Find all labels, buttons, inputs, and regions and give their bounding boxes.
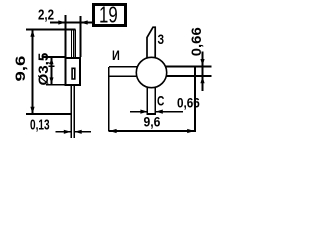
source lead (left) top edge [109, 66, 137, 68]
arrowhead left [75, 130, 82, 134]
crossbar tick [49, 65, 55, 67]
body lead (right) top edge [166, 66, 212, 68]
can bottom extension line left [46, 84, 66, 86]
dimension 0,66 bottom left shaft [130, 111, 147, 113]
svg-text:0,66: 0,66 [177, 96, 200, 111]
can circle top view [136, 57, 166, 87]
dimension line 9,6 vertical [32, 30, 34, 115]
arrowhead right [187, 129, 194, 133]
flange mid line c [74, 30, 76, 58]
case number box 19 [94, 5, 126, 26]
arrowhead up [30, 29, 34, 37]
extension line x=195 [194, 67, 196, 133]
body lead bottom edge [166, 75, 211, 77]
dimension 0,13 left shaft [56, 131, 71, 133]
source lead end + extension line down [108, 67, 110, 132]
flange mid line b [72, 30, 74, 58]
svg-text:С: С [157, 93, 165, 109]
lead wire left side [70, 86, 72, 139]
drain lead right edge [154, 87, 156, 115]
arrowhead left [109, 129, 116, 133]
dimension line 9,6 bottom [109, 130, 195, 132]
arrowhead down [30, 107, 34, 115]
dimension 0,66 bottom right shaft [156, 111, 183, 113]
drain lead end cap [147, 113, 157, 115]
arrowhead left [156, 110, 163, 114]
can top extension line left [43, 56, 66, 58]
svg-text:0,13: 0,13 [30, 115, 50, 133]
arrowhead right [140, 110, 147, 114]
flange mid line a [71, 30, 73, 58]
gate tab (up) [147, 27, 155, 58]
dimension 0,13 right shaft [75, 131, 91, 133]
svg-text:2,2: 2,2 [38, 6, 54, 23]
source lead bottom edge [109, 75, 137, 77]
arrowhead left toward x=80.5 [80, 20, 88, 24]
svg-text:З: З [158, 32, 165, 48]
drain lead (down) left edge [146, 87, 148, 115]
extension line left (x=65.5) [65, 15, 67, 57]
lead wire right side [73, 86, 75, 139]
arrowhead right toward x=65.5 [58, 20, 66, 24]
arrowhead up to lead bottom [200, 76, 204, 83]
dimension line 2,2 / leader to box 19 [50, 22, 92, 24]
arrowhead right [64, 130, 71, 134]
dimension line O3,5 vertical [51, 58, 53, 85]
svg-text:9,6: 9,6 [144, 114, 161, 130]
svg-text:Ø3,5: Ø3,5 [36, 53, 51, 86]
svg-text:0,66: 0,66 [189, 27, 204, 56]
top extension line [26, 29, 76, 31]
svg-text:И: И [112, 48, 120, 64]
can body side view [66, 58, 81, 85]
arrowhead down [50, 77, 54, 84]
dimension line x=202.5 for 0,66 [202, 52, 204, 92]
extension line right (x=80.5) [80, 16, 82, 57]
arrowhead down to lead top [200, 59, 204, 66]
crystal window [72, 68, 75, 79]
svg-text:19: 19 [99, 3, 118, 28]
bottom extension line [26, 113, 71, 115]
svg-text:9,6: 9,6 [13, 56, 28, 82]
arrowhead up [50, 57, 54, 64]
